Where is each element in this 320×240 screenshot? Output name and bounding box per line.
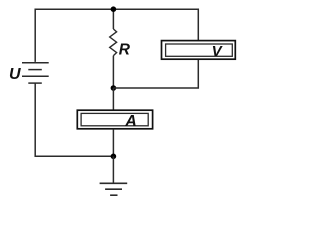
wire: ammeter branch from mid node to ammeter top (112, 88, 114, 110)
ground bar 2 (105, 188, 122, 190)
resistor R zigzag (110, 29, 117, 56)
voltmeter V inner box (166, 44, 233, 56)
battery U : long plate 2 (22, 75, 49, 77)
ground bar 3 (110, 194, 117, 196)
battery U : short plate 2 (28, 82, 42, 84)
svg-text:V: V (212, 43, 224, 60)
ammeter A inner box (81, 113, 148, 125)
svg-text:A: A (124, 113, 137, 130)
wire: resistor branch top stub (112, 9, 114, 29)
ammeter A outer box (77, 110, 152, 129)
node: top junction dot (111, 6, 117, 12)
wire: left vertical from battery bottom to bottom-left corner, then bottom rail to ground node (35, 83, 113, 156)
wire: mid rail from mid node to voltmeter branch, up to voltmeter (113, 59, 198, 88)
battery U : long plate 1 (22, 62, 49, 64)
ground stem (112, 156, 114, 183)
svg-text:U: U (9, 66, 21, 83)
voltmeter V outer box (162, 41, 236, 60)
node: mid junction dot (111, 85, 117, 91)
node: bottom junction dot (111, 154, 117, 160)
svg-text:R: R (119, 41, 131, 58)
battery U : short plate 1 (28, 69, 42, 71)
ground bar 1 (100, 182, 128, 184)
wire: ammeter bottom stub to bottom node (112, 129, 114, 157)
wire: resistor branch bottom stub to mid node (112, 56, 114, 88)
wire: top rail with left and right corners (left branch down to battery, right branch down to voltmeter) (35, 9, 198, 62)
